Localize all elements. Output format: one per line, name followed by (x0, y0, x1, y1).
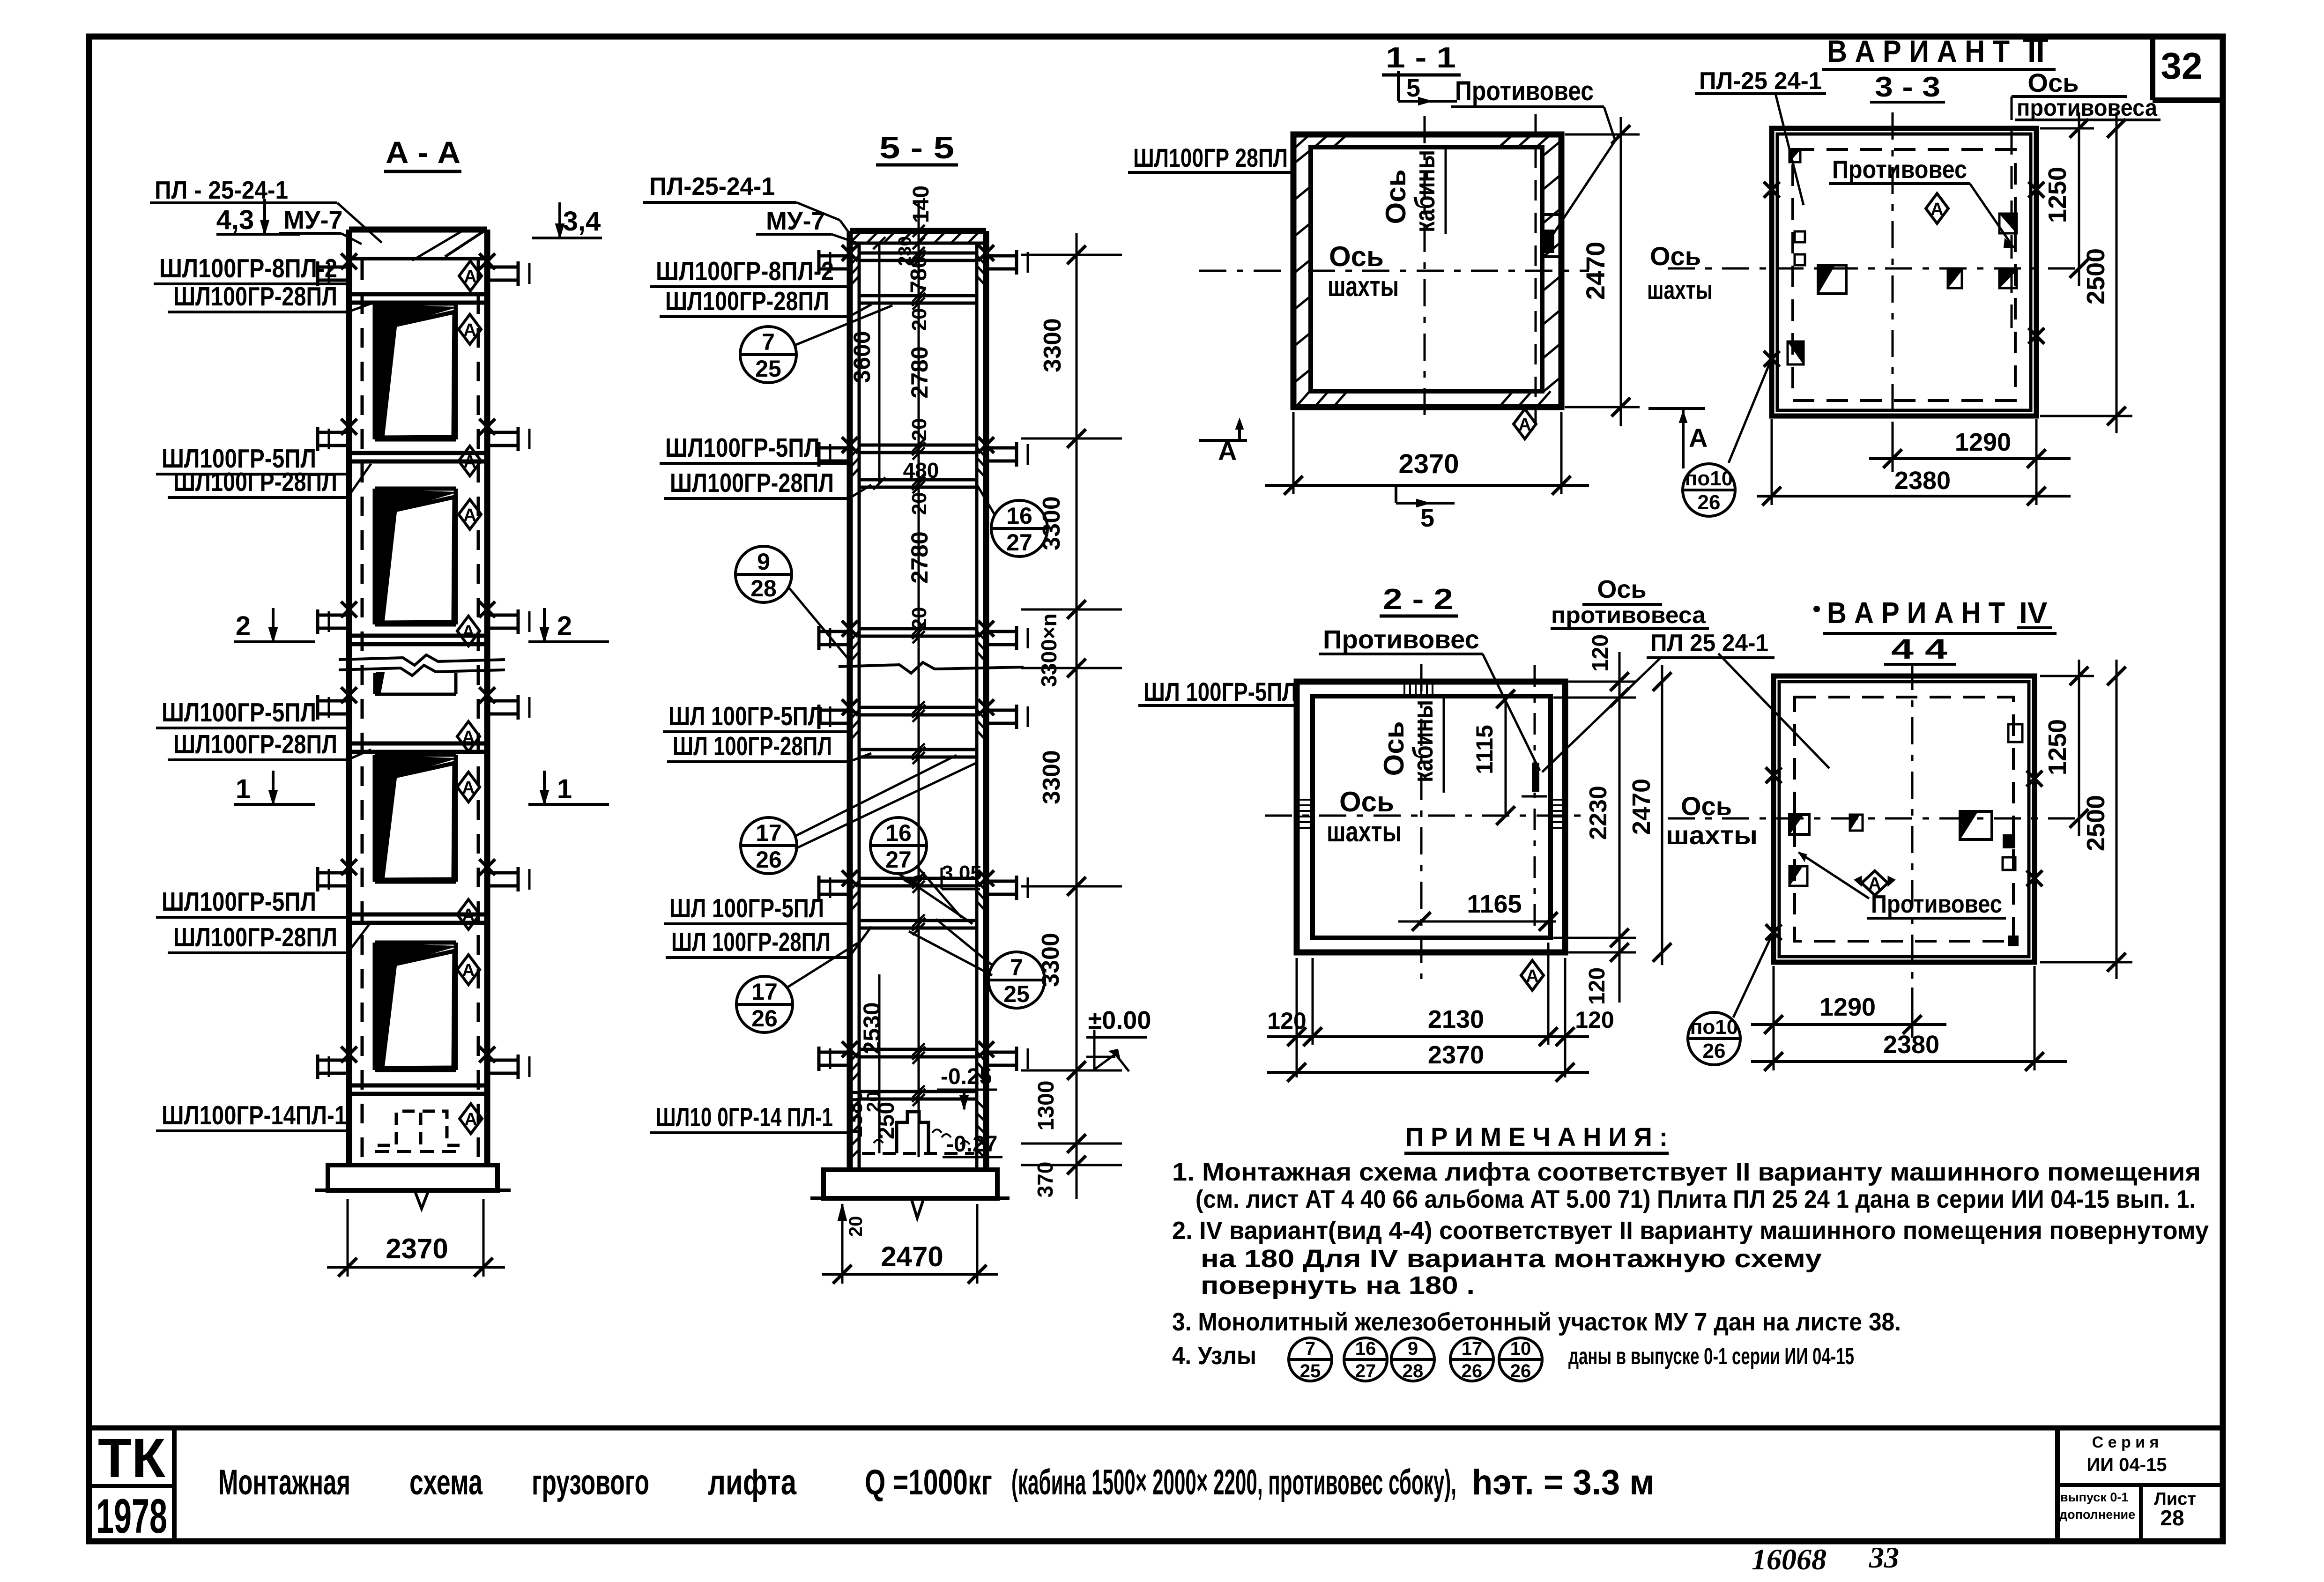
svg-text:28: 28 (2160, 1506, 2184, 1530)
svg-text:2380: 2380 (1883, 1031, 1939, 1059)
svg-text:ШЛ100ГР-28ПЛ: ШЛ100ГР-28ПЛ (665, 286, 829, 316)
plan 1-1 right dimension 2470 (1565, 134, 1640, 136)
svg-text:1. Монтажная схема лифта: 1. Монтажная схема лифта соответствует I… (1172, 1158, 2201, 1186)
svg-text:17: 17 (1462, 1338, 1483, 1359)
plan 1-1 cabin axis line (1424, 116, 1426, 425)
A-A bracket row level 3 (318, 614, 351, 617)
svg-text:А: А (462, 906, 475, 925)
5-5 node circle 17-26 upper (741, 817, 797, 874)
svg-text:26: 26 (1510, 1361, 1531, 1381)
5-5 bottom dimension 2470 (841, 1204, 844, 1284)
title block top line (89, 1426, 2223, 1431)
svg-text:даны в выпуске 0-1 сери: даны в выпуске 0-1 серии ИИ 04-15 (1568, 1343, 1854, 1369)
svg-text:3600: 3600 (849, 331, 875, 383)
svg-text:26: 26 (1462, 1361, 1483, 1381)
svg-text:противовеса: противовеса (2017, 95, 2158, 121)
svg-text:2780: 2780 (906, 531, 933, 583)
plan 2-2 comb joints (1403, 682, 1405, 696)
A-A bracket row level 1 SHL100GR-8PL-2 (318, 266, 351, 269)
svg-text:3. Монолитный железобетонны: 3. Монолитный железобетонный участок МУ … (1172, 1308, 1901, 1336)
5-5 slab band level 2 (859, 478, 977, 482)
svg-text:±0.00: ±0.00 (1088, 1006, 1151, 1034)
svg-text:20: 20 (908, 607, 931, 630)
svg-text:А: А (464, 267, 476, 287)
svg-text:шахты: шахты (1666, 820, 1758, 850)
svg-text:3 - 3: 3 - 3 (1875, 71, 1940, 103)
plan 3-3 anchor plates (1789, 149, 1800, 162)
A-A door opening storey 4 (376, 943, 456, 1068)
svg-text:ШЛ 100ГР-5ПЛ: ШЛ 100ГР-5ПЛ (1143, 677, 1297, 706)
svg-text:Противовес: Противовес (1832, 156, 1967, 184)
svg-text:120: 120 (1267, 1008, 1306, 1034)
svg-text:27: 27 (1006, 529, 1032, 556)
svg-text:20: 20 (908, 492, 931, 515)
svg-text:140: 140 (909, 186, 934, 223)
svg-text:А: А (1930, 200, 1943, 219)
5-5 beam band level 2 (859, 444, 977, 447)
svg-text:3300: 3300 (1038, 750, 1065, 804)
svg-text:33: 33 (1869, 1541, 1899, 1574)
svg-text:1 - 1: 1 - 1 (1386, 42, 1456, 74)
svg-text:по10: по10 (1685, 467, 1733, 490)
svg-text:А: А (1518, 415, 1531, 435)
svg-text:2370: 2370 (1428, 1041, 1484, 1069)
svg-text:А - А: А - А (386, 135, 460, 170)
svg-text:-0.25: -0.25 (941, 1064, 992, 1089)
plan 1-1 section arrow A left (1199, 439, 1247, 442)
5-5 dim chain 3600 (878, 243, 881, 483)
svg-text:Противовес: Противовес (1323, 624, 1479, 654)
A-A node diamond marks storey 1 (459, 261, 482, 291)
A-A door opening storey 3 (376, 756, 456, 880)
5-5 node circle 9-28 (735, 546, 792, 602)
svg-text:3 05: 3 05 (942, 862, 982, 884)
svg-text:7: 7 (1305, 1338, 1315, 1359)
svg-text:А: А (1689, 423, 1708, 453)
A-A door opening storey 2 (376, 490, 456, 623)
A-A floor slab 5 (349, 913, 487, 917)
svg-text:А: А (464, 1110, 477, 1129)
svg-text:2380: 2380 (1894, 467, 1951, 495)
5-5 wall inner lines (858, 243, 861, 1170)
svg-text:2530: 2530 (859, 1002, 885, 1054)
A-A bottom dimension 2370 (347, 1199, 349, 1277)
svg-text:26: 26 (751, 1005, 778, 1032)
svg-text:ШЛ 100ГР-5ПЛ: ШЛ 100ГР-5ПЛ (668, 701, 823, 731)
5-5 right dimension chain 3300 (1076, 233, 1078, 1199)
svg-text:ШЛ 100ГР-5ПЛ: ШЛ 100ГР-5ПЛ (669, 893, 824, 923)
svg-text:Ось: Ось (1597, 575, 1646, 603)
svg-text:Ось: Ось (1681, 791, 1732, 821)
svg-text:П Р И М Е Ч А Н И Я :: П Р И М Е Ч А Н И Я : (1405, 1122, 1668, 1151)
svg-text:ШЛ100ГР-8ПЛ-2: ШЛ100ГР-8ПЛ-2 (656, 256, 834, 286)
svg-text:3300: 3300 (1038, 496, 1065, 550)
svg-text:А: А (462, 778, 475, 798)
plan 1-1 bottom dimension 2370 (1292, 412, 1295, 494)
plan 2-2 diamond mark (1521, 960, 1544, 990)
svg-text:Ось: Ось (1329, 241, 1384, 272)
svg-text:4. Узлы: 4. Узлы (1172, 1342, 1256, 1370)
svg-text:780: 780 (906, 256, 931, 293)
5-5 node circle 7-25 lower (988, 952, 1045, 1008)
svg-text:ПЛ-25-24-1: ПЛ-25-24-1 (649, 172, 775, 201)
svg-text:Ось: Ось (1378, 721, 1410, 776)
svg-text:шахты: шахты (1328, 271, 1399, 302)
svg-text:шахты: шахты (1647, 275, 1713, 305)
5-5 beam band level 4 (859, 706, 977, 709)
svg-text:ШЛ100ГР-28ПЛ: ШЛ100ГР-28ПЛ (173, 729, 337, 759)
svg-text:выпуск 0-1: выпуск 0-1 (2060, 1490, 2128, 1504)
plan 3-3 bottom dims 1290 2380 (1892, 422, 1894, 472)
5-5 slab band level 5 (859, 919, 977, 922)
svg-text:ШЛ100ГР-5ПЛ: ШЛ100ГР-5ПЛ (162, 698, 316, 728)
5-5 slab band level 4 (859, 748, 977, 751)
5-5 beam band level 5 (859, 877, 977, 880)
A-A floor slab 2 (349, 451, 487, 455)
svg-text:120: 120 (1588, 634, 1613, 672)
5-5 slab band level 1 (859, 294, 977, 297)
svg-text:ШЛ100ГР-28ПЛ: ШЛ100ГР-28ПЛ (173, 922, 337, 952)
svg-text:1165: 1165 (1467, 890, 1522, 918)
svg-text:2500: 2500 (2082, 795, 2110, 851)
svg-text:(см. лист АТ 4 40 66 альбома: (см. лист АТ 4 40 66 альбома АТ 5.00 71)… (1195, 1185, 2196, 1213)
plan 1-1 section arrow A right (1648, 407, 1705, 410)
plan 2-2 axis lines (1420, 664, 1423, 979)
svg-text:Ось: Ось (1650, 241, 1701, 271)
svg-text:шахты: шахты (1327, 816, 1402, 847)
svg-text:1250: 1250 (2043, 167, 2072, 223)
svg-text:120: 120 (1585, 967, 1610, 1005)
5-5 column outer walls (847, 231, 853, 1170)
svg-text:ТК: ТК (98, 1427, 166, 1489)
svg-text:16068: 16068 (1752, 1543, 1827, 1576)
svg-text:2230: 2230 (1585, 786, 1612, 840)
svg-text:370: 370 (1033, 1162, 1057, 1198)
svg-text:кабины: кабины (1409, 150, 1440, 232)
A-A foundation (349, 1163, 487, 1167)
5-5 interior dimension chain (918, 201, 920, 1157)
svg-text:10: 10 (1510, 1338, 1531, 1359)
A-A bracket row level 2 SHL100GR-5PL (318, 431, 351, 434)
svg-text:А: А (462, 961, 475, 980)
svg-text:С е р и я: С е р и я (2092, 1433, 2159, 1451)
svg-text:26: 26 (1698, 491, 1721, 514)
svg-text:схема: схема (409, 1463, 483, 1502)
svg-text:20: 20 (863, 1092, 884, 1113)
svg-text:ШЛ 100ГР-28ПЛ: ШЛ 100ГР-28ПЛ (671, 927, 831, 957)
A-A door opening storey 1 (376, 305, 456, 438)
svg-text:3,4: 3,4 (563, 206, 601, 237)
plan 1-1 counterweight axis line (1535, 114, 1537, 425)
svg-text:1: 1 (557, 774, 572, 804)
plan 4-4 axis lines (1668, 817, 2077, 820)
svg-text:9: 9 (757, 549, 770, 575)
A-A floor slab 4 (349, 742, 487, 746)
A-A pit meander channel SHL100GR-14PL-1 (378, 1111, 423, 1145)
plan 2-2 dim 1165 (1398, 921, 1556, 923)
svg-text:2130: 2130 (1428, 1005, 1484, 1033)
5-5 top cap hatched (850, 228, 986, 234)
svg-text:1: 1 (236, 774, 251, 804)
svg-text:20: 20 (908, 308, 931, 331)
svg-text:2370: 2370 (1398, 449, 1459, 479)
A-A bracket row level 6 (318, 1059, 351, 1062)
plan 4-4 bottom dims 1290 2380 (1773, 966, 1775, 1070)
svg-text:2: 2 (557, 611, 572, 641)
5-5 node circle 17-26 lower (736, 976, 793, 1032)
svg-text:Q =1000кг: Q =1000кг (865, 1463, 992, 1502)
svg-text:16: 16 (1355, 1338, 1376, 1359)
svg-text:кабины: кабины (1407, 700, 1439, 782)
plan 3-3 right dims 1250 2500 (2040, 127, 2094, 130)
plan 3-3 machine room slab (1772, 128, 2036, 416)
svg-text:28: 28 (750, 575, 777, 602)
plan 4-4 right dims 1250 2500 (2040, 675, 2094, 677)
svg-text:2470: 2470 (881, 1241, 943, 1272)
plan 1-1 counterweight in wall (1542, 213, 1561, 216)
5-5 slab band level 6 (859, 1090, 977, 1093)
5-5 column bottom (850, 1168, 986, 1172)
svg-text:ПЛ 25 24-1: ПЛ 25 24-1 (1650, 630, 1768, 657)
svg-text:5: 5 (1406, 74, 1420, 102)
5-5 break lines (839, 662, 1024, 673)
sheet number box 32 (2150, 37, 2155, 100)
A-A guide rail dashed lines (361, 260, 364, 1162)
plan 1-1 diamond mark (1514, 409, 1536, 439)
svg-text:Монтажная: Монтажная (218, 1463, 350, 1502)
plan 3-3 axis lines (1668, 267, 2077, 270)
svg-text:ШЛ100ГР-28ПЛ: ШЛ100ГР-28ПЛ (173, 467, 337, 497)
svg-text:4,3: 4,3 (216, 205, 254, 235)
5-5 beam band level 6 (859, 1048, 977, 1051)
svg-text:2780: 2780 (906, 346, 933, 398)
svg-text:2 - 2: 2 - 2 (1383, 583, 1453, 616)
5-5 node circle 7-25 upper (740, 327, 796, 383)
plan 1-1 cut mark 5 top (1397, 71, 1400, 101)
A-A floor slab 6 (349, 1084, 487, 1088)
svg-text:27: 27 (1355, 1361, 1376, 1381)
svg-text:ПЛ - 25-24-1: ПЛ - 25-24-1 (155, 176, 288, 204)
plan 3-3 diamond mark (1926, 193, 1948, 223)
svg-text:А: А (462, 622, 475, 642)
5-5 beam band level 1 (859, 252, 977, 255)
svg-text:А: А (463, 452, 476, 472)
variant IV header (1813, 606, 1820, 612)
svg-text:ШЛ100ГР-14ПЛ-1: ШЛ100ГР-14ПЛ-1 (162, 1100, 347, 1130)
plan 1-1 cut mark 5 bottom (1396, 502, 1455, 505)
svg-text:ШЛ100ГР-28ПЛ: ШЛ100ГР-28ПЛ (173, 282, 337, 312)
5-5 dim chain lower 2530 (878, 974, 881, 1153)
svg-text:Противовес: Противовес (1871, 890, 2002, 918)
plan 2-2 bottom dim chain (1296, 958, 1298, 1077)
5-5 node circle 16-27 upper (991, 500, 1047, 557)
plan 3-3 x marks (1764, 182, 1780, 198)
svg-text:1250: 1250 (2043, 719, 2072, 775)
svg-text:25: 25 (1300, 1361, 1321, 1381)
plan 4-4 x marks (1766, 767, 1782, 783)
svg-text:грузового: грузового (532, 1463, 649, 1502)
svg-text:5: 5 (1420, 504, 1434, 532)
svg-text:2470: 2470 (1581, 242, 1610, 300)
plan 1-1 shaft axis line (1199, 270, 1589, 272)
A-A top cap slab MU-7 (349, 257, 487, 260)
svg-text:25: 25 (1003, 981, 1030, 1007)
plan 4-4 node circle po10-26 (1688, 1012, 1740, 1065)
svg-text:1290: 1290 (1819, 993, 1876, 1021)
A-A column outer walls (346, 230, 352, 1165)
5-5 pit walls hatched (850, 1101, 859, 1110)
5-5 pit pedestal (897, 1112, 928, 1153)
svg-text:повернуть на 180 .: повернуть на 180 . (1201, 1271, 1475, 1300)
5-5 beam band level 3 (859, 627, 977, 631)
svg-text:3300: 3300 (1039, 318, 1066, 372)
plan 2-2 counterweight symbol (1534, 665, 1536, 928)
svg-text:2500: 2500 (2082, 248, 2110, 305)
svg-text:20: 20 (846, 1216, 866, 1237)
svg-text:противовеса: противовеса (1551, 602, 1706, 628)
svg-text:А: А (463, 505, 476, 525)
svg-text:Ось: Ось (1380, 170, 1411, 224)
svg-text:1978: 1978 (96, 1489, 167, 1544)
svg-text:ИИ 04-15: ИИ 04-15 (2087, 1455, 2167, 1475)
plan 4-4 machine room slab (1774, 676, 2034, 962)
svg-text:Ось: Ось (1339, 786, 1394, 817)
svg-text:Ось: Ось (2027, 68, 2079, 97)
svg-text:17: 17 (756, 820, 782, 846)
svg-text:25: 25 (755, 356, 781, 382)
5-5 foundation (824, 1170, 997, 1198)
svg-text:А: А (463, 320, 476, 340)
plan 4-4 leader from PL label (1718, 654, 1829, 768)
svg-text:26: 26 (1703, 1040, 1726, 1062)
svg-text:В А Р И А Н Т: В А Р И А Н Т (1827, 34, 2010, 68)
svg-text:4 4: 4 4 (1891, 633, 1948, 665)
plan 2-2 dim 1115 (1505, 695, 1507, 817)
title block TK cell (172, 1428, 177, 1541)
svg-text:А: А (1218, 436, 1237, 466)
svg-text:16: 16 (885, 820, 912, 846)
svg-text:лифта: лифта (708, 1463, 797, 1502)
svg-text:ШЛ 100ГР-28ПЛ: ШЛ 100ГР-28ПЛ (673, 731, 832, 761)
svg-text:-0.27: -0.27 (946, 1132, 997, 1157)
svg-text:2370: 2370 (386, 1233, 448, 1264)
svg-text:32: 32 (2161, 45, 2203, 87)
title block series cell (2055, 1428, 2060, 1541)
svg-text:дополнение: дополнение (2059, 1508, 2135, 1522)
svg-text:ШЛ100ГР-8ПЛ-2: ШЛ100ГР-8ПЛ-2 (159, 253, 337, 283)
plan 1-1 shaft walls (1293, 134, 1561, 407)
svg-text:ШЛ10 0ГР-14 ПЛ-1: ШЛ10 0ГР-14 ПЛ-1 (656, 1102, 833, 1132)
svg-text:1300: 1300 (1034, 1081, 1059, 1131)
plan 4-4 anchor plates (1789, 815, 1809, 834)
svg-text:3300×n: 3300×n (1037, 613, 1061, 687)
5-5 node circle 16-27 lower (870, 817, 927, 874)
svg-text:ШЛ100ГР 28ПЛ: ШЛ100ГР 28ПЛ (1133, 143, 1288, 172)
svg-text:А: А (1526, 966, 1538, 986)
svg-text:9: 9 (1408, 1338, 1418, 1359)
svg-text:7: 7 (762, 329, 775, 355)
svg-text:МУ-7: МУ-7 (283, 206, 343, 234)
svg-text:120: 120 (1575, 1007, 1614, 1033)
svg-text:А: А (462, 728, 475, 747)
A-A bracket row level 4 (318, 699, 351, 703)
svg-text:27: 27 (885, 847, 912, 873)
A-A bracket row level 5 (318, 871, 351, 875)
svg-text:ШЛ100ГР-28ПЛ: ШЛ100ГР-28ПЛ (670, 468, 834, 498)
svg-text:В А Р И А Н Т: В А Р И А Н Т (1827, 596, 2005, 630)
svg-text:26: 26 (756, 847, 782, 873)
svg-text:hэт. = 3.3 м: hэт. = 3.3 м (1472, 1463, 1655, 1502)
A-A floor slab 3 (349, 634, 487, 638)
svg-text:17: 17 (751, 979, 778, 1005)
plan 2-2 right dim chain (1568, 681, 1636, 683)
svg-text:5 - 5: 5 - 5 (879, 130, 954, 165)
plan 3-3 node circle po10-26 (1683, 464, 1735, 516)
svg-text:7: 7 (1010, 954, 1023, 980)
plan 2-2 shaft walls (1297, 682, 1565, 952)
A-A break lines (339, 655, 505, 665)
svg-text:на 180 Для IV варианта: на 180 Для IV варианта монтажную схему (1201, 1245, 1822, 1273)
svg-text:МУ-7: МУ-7 (766, 207, 825, 235)
plan 4-4 diamond mark with arrows (1862, 871, 1888, 895)
svg-text:28: 28 (1403, 1361, 1424, 1381)
svg-text:2470: 2470 (1627, 779, 1656, 835)
svg-text:480: 480 (903, 458, 939, 483)
svg-text:20: 20 (908, 418, 931, 441)
svg-text:по10: по10 (1690, 1016, 1738, 1039)
svg-text:16: 16 (1006, 503, 1032, 529)
svg-text:ШЛ100ГР-5ПЛ: ШЛ100ГР-5ПЛ (162, 887, 316, 917)
svg-text:(кабина 1500× 2000× 2200, п: (кабина 1500× 2000× 2200, противовес сбо… (1011, 1463, 1456, 1502)
svg-text:ПЛ-25 24-1: ПЛ-25 24-1 (1699, 67, 1822, 95)
svg-text:ШЛ100ГР-5ПЛ: ШЛ100ГР-5ПЛ (665, 433, 820, 463)
svg-text:1290: 1290 (1955, 428, 2011, 456)
A-A cut door below break (373, 673, 377, 694)
svg-text:2: 2 (236, 611, 251, 641)
svg-text:IV: IV (2019, 596, 2048, 630)
svg-text:2. IV вариант(вид 4-4) соответ: 2. IV вариант(вид 4-4) соответствует II … (1172, 1217, 2209, 1245)
svg-text:1115: 1115 (1471, 725, 1498, 774)
plan 1-1 wall hatching (1293, 150, 1311, 164)
svg-text:Противовес: Противовес (1455, 76, 1594, 106)
A-A floor slab 1 SHL100GR-28PL (349, 292, 487, 297)
